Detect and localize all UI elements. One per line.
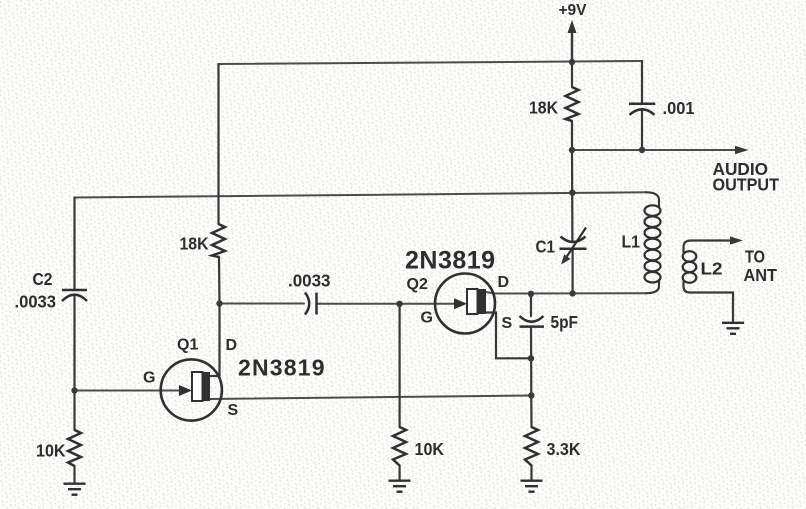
svg-text:S: S [228, 402, 239, 419]
node: source line junction [528, 392, 534, 398]
resistor 3.3K [525, 427, 538, 466]
wire: C2 branch vertical lower to gate junction and 10K [73, 297, 75, 430]
svg-text:18K: 18K [180, 234, 209, 254]
svg-text:G: G [143, 370, 155, 387]
svg-text:18K: 18K [529, 98, 558, 118]
wire: Q2 drain lead and tank bottom line [486, 292, 646, 294]
svg-text:3.3K: 3.3K [547, 439, 581, 459]
svg-text:2N3819: 2N3819 [405, 247, 496, 275]
svg-text:Q1: Q1 [177, 337, 198, 354]
node: +9V rail junction [569, 59, 575, 65]
wire: 10K-2 vertical [399, 304, 401, 427]
node: .001/audio junction [639, 147, 645, 153]
wire: L2 bottom lead to ground [684, 282, 734, 322]
wire: 5pF top lead [530, 294, 532, 316]
svg-text:S: S [502, 315, 513, 332]
wire: 18K-top leads [571, 62, 573, 87]
node: tank top junction [569, 190, 575, 196]
svg-text:G: G [421, 310, 433, 327]
wire: +9V stem [571, 28, 573, 62]
svg-text:2N3819: 2N3819 [238, 355, 326, 381]
ground: 10K left [64, 484, 86, 495]
ground: L2 [722, 323, 744, 334]
wire: C2 branch vertical upper [73, 198, 75, 290]
svg-text:C2: C2 [33, 269, 53, 289]
svg-text:L1: L1 [622, 232, 641, 252]
svg-text:TO: TO [745, 247, 765, 267]
wire: top rail from 18K-left top corner to .001 corner [219, 61, 643, 64]
wire: 10K-1 bottom lead [73, 466, 75, 484]
resistor 18K top [566, 87, 579, 121]
to-ant arrow [730, 236, 743, 244]
resistor 10K mid [393, 427, 406, 466]
svg-text:5pF: 5pF [551, 312, 579, 332]
wire: coupling cap right lead / Q2 gate line [317, 303, 455, 305]
inductor L1 [645, 205, 661, 282]
ground: 3.3K [521, 481, 543, 492]
wire: Q1 drain vertical [218, 304, 220, 377]
node: Q2 source junction [528, 355, 534, 361]
svg-text:.0033: .0033 [15, 292, 57, 312]
wire: audio output line [572, 149, 740, 151]
svg-text:C1: C1 [536, 237, 556, 257]
svg-text:.0033: .0033 [288, 271, 331, 291]
wire: 3.3K top lead [530, 396, 532, 428]
capacitor C1 arrow shaft [565, 228, 587, 261]
node: Q1 drain junction [216, 300, 222, 306]
transistor Q1 2N3819 [161, 359, 222, 420]
wire: Q2 source lead down and across to 5pF bottom [486, 313, 531, 359]
node: Q2 gate junction [396, 301, 402, 307]
svg-text:Q2: Q2 [407, 276, 428, 293]
ground: 10K mid [389, 481, 411, 492]
svg-text:10K: 10K [36, 441, 66, 461]
wire: Q1 source line to 3.3K junction [209, 396, 531, 400]
capacitor .0033 coupling plates [305, 293, 309, 315]
capacitor 5pF plates [520, 316, 544, 322]
svg-text:.001: .001 [663, 98, 695, 118]
wire: 10K-2 bottom lead [399, 466, 401, 481]
svg-text:ANT: ANT [744, 265, 778, 285]
audio output arrow [735, 146, 749, 155]
wire: 18K-left vertical upper lead [217, 64, 219, 224]
node: Q1 gate junction [71, 387, 77, 393]
wire: L2 top lead to antenna arrow [684, 241, 736, 253]
wire: .001 branch vertical upper [641, 61, 643, 103]
svg-text:+9V: +9V [558, 2, 587, 19]
wire: Q1 gate line [75, 390, 182, 392]
svg-text:10K: 10K [415, 439, 445, 459]
node: 5pF top junction [528, 291, 534, 297]
resistor 10K left [68, 430, 81, 466]
svg-text:D: D [498, 274, 510, 291]
node: 18K/audio junction [569, 147, 575, 153]
wire: tank top corner into L1 [646, 192, 659, 207]
wire: feedback line C2 top to tank top [75, 192, 647, 197]
+9V arrow [568, 20, 577, 33]
resistor 18K left [212, 224, 225, 257]
wire: 5pF bottom lead to source junction [530, 327, 532, 396]
svg-text:OUTPUT: OUTPUT [713, 175, 780, 195]
C1 variable arrowhead [561, 254, 571, 264]
capacitor .001 plates [629, 102, 655, 105]
capacitor C1 plates (variable) [561, 237, 586, 243]
node: C1 bottom junction [569, 290, 575, 296]
transistor Q2 2N3819 [435, 274, 495, 334]
wire: tank bottom corner from L1 [646, 280, 659, 293]
ground symbols [64, 323, 745, 495]
svg-text:D: D [226, 337, 238, 354]
arrowheads [561, 20, 749, 265]
wire: coupling cap left lead [220, 303, 305, 305]
wire: .001 branch vertical lower [641, 109, 643, 150]
capacitor C2 plates [62, 289, 87, 292]
inductor L2 [683, 251, 697, 283]
wire: 3.3K bottom lead [530, 466, 532, 481]
wire: C1 bottom lead [571, 250, 573, 293]
svg-text:L2: L2 [701, 259, 723, 279]
wire: 18K-left lower lead to drain junction [218, 257, 221, 304]
wire: supply junction down to C1 top [571, 150, 574, 241]
wire: Q1 drain bar lead [208, 375, 220, 377]
